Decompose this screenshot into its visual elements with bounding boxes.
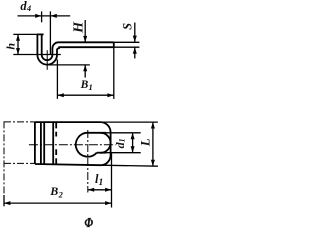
B1 left extension line [56,60,58,99]
d1 bottom extension line [106,152,141,154]
B2 arrowhead left (pointing left) [4,201,10,205]
B2 left extension line (dash-dot top, solid bottom) [3,121,5,195]
d1 arrowhead bottom (pointing down) [131,146,135,152]
svg-text:L: L [139,138,153,147]
plan outline rounded right end [100,122,110,165]
part side-view inner profile [42,34,114,60]
L bottom extension line [101,165,158,166]
L arrowhead top (pointing up) [151,122,155,128]
horizontal centerline of plan view [29,144,116,146]
plan outline top edge [35,121,100,123]
L top extension line [100,121,158,123]
d4 left extension line [41,11,43,22]
plan outline bottom edge (slightly sloped) [35,164,101,165]
S arrowhead bottom (pointing up) [133,47,137,53]
H arrowhead bottom (pointing up) [83,65,87,71]
L dimension line [152,122,154,166]
vertical centerline of keyhole circle / l1 left extension [87,130,89,193]
leg top cap [37,33,44,35]
H arrowhead top (pointing down) [83,36,87,42]
h top extension line [13,33,37,35]
svg-text:S: S [121,23,135,30]
bend line 1 [40,122,42,163]
d4 right extension line [49,11,51,54]
d1 top extension line [106,132,141,134]
d1 arrowhead top (pointing up) [131,133,135,139]
S dimension line lower segment [134,47,136,58]
B2 / l1 right extension line [111,153,113,207]
slot top edge [88,132,106,134]
svg-text:Ф: Ф [85,214,94,230]
h arrowhead bottom (pointing down) [16,48,20,54]
slot right end arc [101,133,111,153]
bend line 3 [52,122,54,164]
L arrowhead bottom (pointing down) [151,160,155,166]
h arrowhead top (pointing up) [16,34,20,40]
d4 arrowhead right (pointing left) [50,14,56,18]
l1 arrowhead left (pointing left) [88,188,94,192]
h dimension line [17,34,19,54]
d4 dimension line [18,15,71,17]
B2 arrowhead right (pointing right) [105,201,111,205]
l1 dimension line [88,189,112,191]
phantom developed-length top edge (dash-dot) [4,121,35,123]
B1 arrowhead right (pointing right) [107,93,113,97]
strip right end face [113,42,115,47]
B1 dimension line [57,94,113,96]
l1 arrowhead right (pointing right) [105,188,111,192]
B1 right extension line [113,47,115,99]
part bottom tangent extension line (for H) [46,64,90,66]
curl vertical centerline [46,50,48,70]
svg-text:h: h [3,43,17,50]
phantom developed-length bottom edge (dash-dot) [4,162,35,164]
svg-text:H: H [72,21,87,34]
bend line 4 (hidden, dashed) [55,123,57,165]
bend line 2 [43,122,45,164]
H dimension line upper segment [84,20,86,42]
B2 dimension line [4,202,112,204]
keyhole circle arc [76,133,97,157]
plan outline left edge [34,122,36,164]
H dimension line lower segment [84,65,86,78]
slot bottom edge [97,152,106,154]
d1 dimension line [132,133,134,153]
S dimension line upper segment [134,23,136,43]
d4 arrowhead left (pointing right) [35,14,41,18]
B1 arrowhead left (pointing left) [57,93,63,97]
h bottom extension line [13,54,61,56]
part side-view outer profile (leg, curl, strip) [37,34,113,64]
strip surface extension lines for S [114,42,140,47]
S arrowhead top (pointing down) [133,36,137,42]
